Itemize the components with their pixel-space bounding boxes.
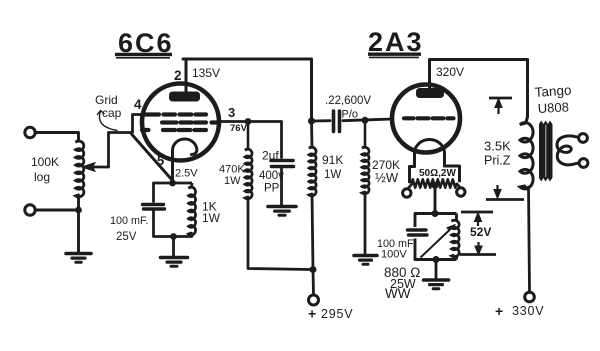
svg-text:5: 5	[157, 153, 164, 168]
svg-text:½W: ½W	[375, 170, 399, 185]
svg-text:P/o: P/o	[342, 109, 359, 121]
resistor R3 91K 1W	[309, 121, 316, 196]
tube V2 2A3 envelope	[392, 85, 460, 153]
annotation arrow: grid cap	[97, 111, 118, 131]
tube V1 cathode	[172, 139, 196, 183]
svg-text:100K: 100K	[31, 155, 59, 169]
svg-text:320V: 320V	[436, 65, 464, 79]
rheostat arrow R6	[421, 225, 456, 258]
wire: V1 plate lead	[185, 59, 188, 92]
dimension: primary span top	[489, 98, 512, 114]
ground: 270K	[354, 256, 377, 265]
svg-text:52V: 52V	[470, 225, 491, 239]
svg-text:3.5K: 3.5K	[484, 139, 511, 154]
ground: input pot	[66, 254, 91, 263]
svg-text:4: 4	[134, 97, 142, 112]
capacitor C2 2uF 400V PP	[271, 161, 294, 167]
junction: V2 cathode box bottom	[433, 256, 440, 263]
svg-text:Tango: Tango	[534, 82, 572, 100]
svg-text:1W: 1W	[224, 175, 241, 187]
resistor R4 270K 1/2W	[362, 147, 369, 194]
resistor R1 1K 1W	[189, 183, 196, 235]
dimension: 52V	[460, 212, 496, 255]
terminal: secondary top	[579, 134, 588, 143]
capacitor C4 100mF 100V	[408, 230, 428, 235]
input terminal J1 bottom	[25, 205, 35, 215]
svg-text:76V: 76V	[230, 123, 248, 134]
svg-text:2: 2	[174, 68, 182, 83]
tube V2 filament	[415, 140, 445, 167]
svg-text:log: log	[34, 170, 50, 184]
svg-text:1W: 1W	[324, 169, 341, 181]
wire: V2 plate lead	[428, 60, 431, 89]
svg-text:330V: 330V	[512, 304, 544, 318]
dimension: primary span bottom	[486, 185, 524, 200]
transformer T1 secondary	[557, 136, 579, 165]
svg-text:2uf: 2uf	[262, 149, 279, 163]
wire: node to +295V terminal	[312, 270, 315, 295]
wire: screen node to 470K	[247, 122, 250, 150]
junction: hum pot center tap	[432, 182, 439, 189]
svg-text:PP: PP	[264, 183, 280, 195]
resistor R6 880ohm 25W WW	[452, 220, 460, 257]
wire: grid cap lead to pot wiper	[109, 115, 148, 168]
tube V1 grid (row 1 dashes)	[143, 112, 206, 116]
tube V1 6C6 envelope	[142, 84, 219, 161]
capacitor C3 0.22uF 600V	[334, 111, 340, 132]
wire: filament left shoulder	[410, 167, 415, 183]
wire: input bottom to pot	[35, 209, 79, 212]
wire: coupling cap to V2 grid	[343, 119, 392, 121]
junction: +295V node	[310, 266, 317, 273]
ground: V1 cathode	[161, 258, 188, 267]
tube V1 plate	[169, 92, 200, 102]
svg-text:cap: cap	[102, 106, 122, 120]
svg-text:470K: 470K	[219, 164, 245, 176]
svg-text:91K: 91K	[322, 153, 343, 167]
svg-text:100 mF.: 100 mF.	[110, 215, 148, 227]
terminal: filament left	[403, 189, 411, 197]
junction: V1 cathode node	[169, 180, 176, 187]
wire: box to ground	[435, 260, 438, 279]
svg-text:.22,600V: .22,600V	[325, 95, 371, 107]
terminal: secondary bottom	[579, 159, 588, 168]
tube V2 plate	[416, 88, 444, 98]
transformer T1 primary	[520, 114, 533, 190]
svg-text:400v: 400v	[259, 170, 284, 182]
svg-text:3: 3	[228, 105, 235, 120]
junction: V2 cathode box top	[432, 210, 439, 217]
wire: node to coupling cap	[312, 119, 331, 122]
title underline 6C6	[115, 55, 172, 58]
ground: V2 cathode	[424, 280, 449, 289]
title underline 2A3	[368, 54, 421, 57]
wire: 470K bottom to B+ node	[248, 197, 312, 270]
wire: V1 plate rail to coupling node	[183, 59, 312, 121]
tube V1 screen grid (row 2 dashes)	[162, 120, 219, 124]
wire: center tap to cathode box	[434, 186, 437, 214]
wire: filament right shoulder	[445, 166, 460, 181]
pot wiper arrow	[82, 163, 109, 172]
wire: cathode box top	[154, 183, 193, 237]
wire: pot bottom stub	[77, 195, 80, 210]
svg-text:WW: WW	[385, 286, 411, 301]
junction: screen node / 470K	[245, 118, 252, 125]
tube V2 grid dashes	[404, 116, 454, 120]
junction: V2 grid node	[362, 117, 369, 124]
wire: V2 cathode box outline	[415, 214, 457, 260]
svg-text:2.5V: 2.5V	[175, 168, 198, 180]
svg-text:135V: 135V	[192, 66, 220, 80]
wire: input top to pot	[35, 133, 79, 142]
svg-text:Pri.Z: Pri.Z	[484, 154, 511, 168]
wire: hum pot left stub	[408, 185, 412, 189]
junction: V1 plate / coupling node	[308, 118, 315, 125]
input terminal J1 top	[25, 127, 35, 137]
junction: cathode box bottom	[170, 233, 177, 240]
wire: 2uF to ground	[280, 169, 283, 205]
wire: transformer to +330V	[529, 187, 530, 292]
potentiometer VR1 100K log	[76, 141, 84, 197]
wire: 91K to +295V node	[312, 194, 313, 270]
svg-text:1W: 1W	[202, 211, 221, 225]
wire: V2 plate rail to transformer	[430, 60, 528, 118]
wire: hum pot right stub	[457, 184, 460, 188]
svg-text:Grid: Grid	[95, 93, 118, 107]
terminal: +295V	[309, 295, 319, 305]
svg-text:+: +	[308, 306, 316, 322]
tube V1 suppressor (row 3 dashes)	[142, 128, 206, 132]
svg-text:U808: U808	[537, 99, 569, 116]
svg-text:100V: 100V	[381, 249, 407, 261]
svg-text:50Ω,2W: 50Ω,2W	[419, 168, 456, 179]
wire: 270K to ground	[364, 192, 367, 254]
svg-text:25V: 25V	[116, 231, 137, 243]
junction: pot bottom / input low	[75, 207, 82, 214]
wire: V1 screen to 2uF cap	[219, 122, 282, 158]
terminal: filament right	[457, 188, 465, 196]
resistor R2 470K 1W	[245, 149, 252, 199]
capacitor C1 100mF 25V	[143, 205, 165, 210]
svg-text:295V: 295V	[321, 307, 353, 321]
ground: 2uF	[268, 207, 296, 216]
transformer T1 core	[539, 121, 553, 182]
wire: 1K bottom stub	[190, 233, 193, 237]
svg-text:+: +	[495, 303, 503, 319]
wire: suppressor diagonal to cathode	[132, 134, 173, 181]
wire: pot to ground	[77, 210, 80, 252]
wire: grid node to 270K	[364, 120, 367, 147]
wire: cathode box to ground	[172, 237, 175, 257]
resistor R5 50ohm 2W hum balance	[412, 179, 457, 187]
terminal: +330V	[525, 292, 535, 302]
